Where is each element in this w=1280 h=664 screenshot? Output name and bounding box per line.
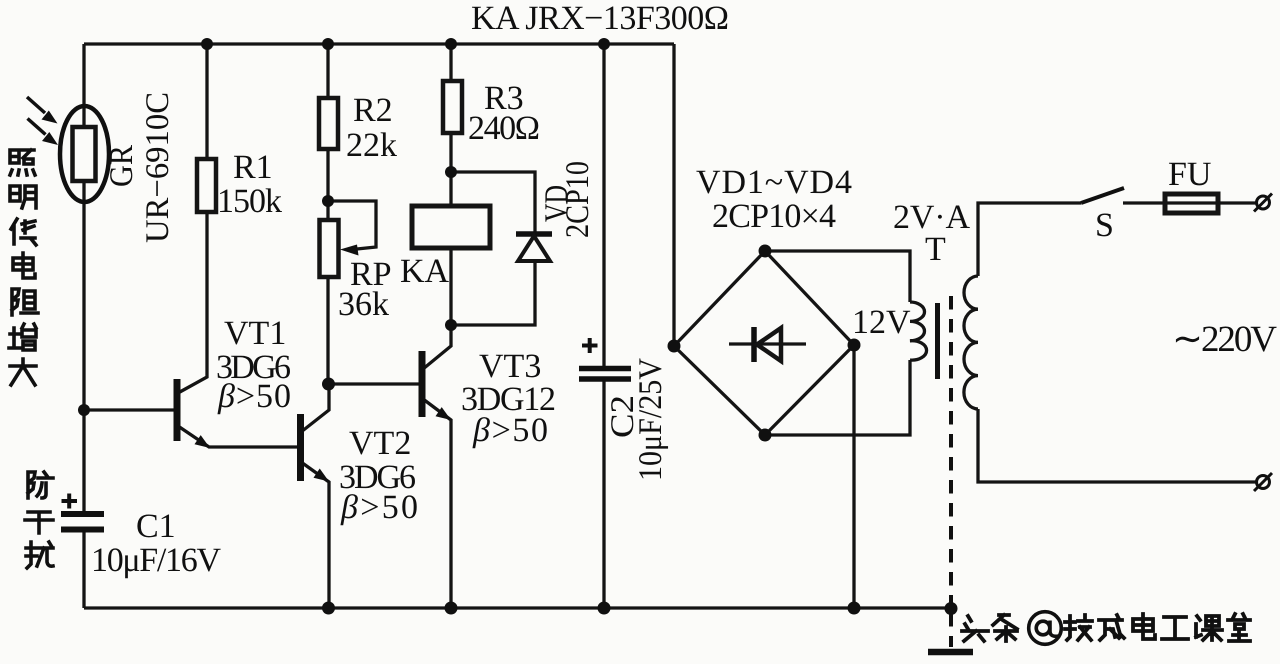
svg-text:∼220V: ∼220V	[1172, 319, 1277, 360]
svg-text:240Ω: 240Ω	[468, 110, 540, 147]
node dot top bus R2	[322, 38, 334, 50]
wire node B to VT3 base	[328, 382, 420, 385]
bridge rectifier inner diode triangle	[757, 328, 781, 361]
svg-text:VT1: VT1	[224, 315, 286, 352]
svg-text:VT2: VT2	[349, 425, 411, 462]
svg-text:22k: 22k	[346, 127, 397, 164]
capacitor C2 polarity plus	[582, 338, 598, 353]
node dot VT2 emitter bottom bus	[322, 602, 335, 615]
photoresistor GR ellipse	[60, 106, 109, 202]
node dot VT2 collector VT3 base	[322, 378, 335, 391]
wire RP wiper	[328, 201, 376, 250]
wire R3 lower	[449, 132, 452, 172]
diode VD triangle	[518, 236, 550, 261]
capacitor C1 polarity plus	[62, 494, 78, 509]
wire R3 branch upper	[449, 44, 452, 82]
wire C2 branch lower	[602, 381, 605, 608]
node dot bridge drop bottom bus	[848, 602, 861, 615]
node dot top bus C2	[598, 38, 610, 50]
light arrow 2	[28, 119, 59, 146]
wire bridge edge top-left	[674, 251, 765, 346]
node dot bridge right vertex	[848, 339, 861, 352]
watermark halo	[962, 614, 1250, 641]
bridge rectifier inner diode cathode bar	[751, 327, 757, 362]
watermark at symbol	[1029, 612, 1062, 645]
svg-text:R2: R2	[353, 92, 393, 129]
wire primary bottom to terminal	[978, 409, 1256, 482]
svg-text:S: S	[1095, 207, 1114, 244]
capacitor C2 plates	[579, 369, 631, 380]
node dot C2 bottom bus	[598, 602, 611, 615]
wire bridge edge top-right	[765, 251, 854, 345]
svg-text:FU: FU	[1168, 156, 1211, 193]
wire VT3 collector	[423, 325, 451, 369]
svg-text:KA JRX−13F300Ω: KA JRX−13F300Ω	[471, 0, 729, 37]
node dot GR VT1 base	[78, 404, 90, 416]
wire VD branch bottom	[451, 260, 535, 325]
wire bridge edge bottom-left	[674, 346, 765, 435]
wire VT1 emitter to VT2 base	[178, 426, 300, 447]
svg-text:36k: 36k	[338, 286, 389, 323]
resistor R1	[197, 159, 216, 212]
transistor VT1 emitter arrow	[195, 435, 211, 448]
node dot ground	[945, 602, 958, 615]
wire VT2 collector	[301, 384, 329, 432]
resistor R3	[443, 81, 462, 133]
bridge rectifier inner diode line	[729, 342, 806, 345]
svg-text:R1: R1	[233, 149, 273, 186]
svg-text:150k: 150k	[217, 183, 282, 220]
wire primary top corner	[978, 203, 1081, 276]
light arrow 1	[27, 97, 58, 124]
svg-text:2CP10: 2CP10	[560, 161, 596, 238]
node dot R2 RP wiper	[322, 195, 334, 207]
wire RP bottom to node B	[326, 276, 329, 384]
svg-text:VD1~VD4: VD1~VD4	[696, 164, 852, 201]
svg-text:2CP10×4: 2CP10×4	[712, 198, 836, 235]
wire bridge top vertex to secondary	[765, 251, 910, 302]
fuse FU body	[1165, 194, 1218, 213]
wire R2 branch upper	[326, 44, 329, 99]
transistor VT3 emitter arrow	[436, 407, 452, 420]
transistor VT2 emitter arrow	[314, 469, 330, 482]
terminal bottom right	[1254, 473, 1272, 491]
svg-text:UR−6910C: UR−6910C	[140, 92, 176, 243]
wire left rail upper	[82, 44, 85, 513]
wire bridge edge bottom-right	[765, 345, 854, 435]
capacitor C1 plates	[61, 514, 104, 530]
wire top bus	[84, 42, 674, 45]
switch S blade	[1081, 188, 1124, 203]
wire bridge right vertex to bottom bus	[852, 345, 855, 608]
wire bridge feed from top bus	[672, 44, 675, 346]
wire VT1 base	[84, 408, 176, 411]
svg-text:T: T	[925, 231, 946, 268]
relay coil KA	[412, 206, 490, 248]
ground bar	[928, 649, 973, 656]
svg-text:β>50: β>50	[217, 378, 291, 415]
node dot R3 KA VD	[445, 166, 457, 178]
node dot bridge top vertex	[759, 245, 772, 258]
wire VT3 emitter	[423, 399, 451, 608]
wire VD branch top	[451, 172, 535, 235]
node dot bridge bottom vertex	[759, 429, 772, 442]
transformer secondary winding	[910, 302, 927, 360]
wire C2 branch upper	[602, 44, 605, 366]
wire R2 to RP	[326, 148, 329, 221]
svg-text:10μF/16V: 10μF/16V	[91, 542, 221, 579]
svg-text:β>50: β>50	[340, 489, 418, 526]
label vertical chinese fang-gan-rao	[25, 472, 53, 568]
svg-text:C1: C1	[136, 508, 176, 545]
transformer core bar	[935, 303, 940, 379]
wire VT2 emitter	[301, 462, 329, 608]
wire R1 branch lower to VT1 collector	[178, 211, 207, 393]
watermark at symbol halo	[1029, 612, 1062, 645]
photoresistor GR body	[73, 127, 96, 181]
transistor VT3 base bar	[419, 351, 426, 417]
node dot top bus R3	[445, 38, 457, 50]
svg-text:β>50: β>50	[472, 412, 548, 449]
terminal top right	[1254, 194, 1272, 212]
transformer primary winding	[964, 276, 978, 409]
node dot bridge left vertex	[668, 340, 681, 353]
transistor VT1 base bar	[174, 379, 181, 441]
wire KA branch lower	[449, 247, 452, 325]
potentiometer RP wiper arrow	[340, 245, 359, 256]
wire left rail lower	[82, 528, 85, 608]
wire KA branch upper	[449, 172, 452, 207]
potentiometer RP body	[320, 220, 339, 277]
transistor VT2 base bar	[297, 414, 304, 481]
node dot KA VD bottom	[445, 319, 457, 331]
svg-text:12V: 12V	[852, 304, 911, 341]
resistor R2	[319, 98, 338, 149]
svg-text:GR: GR	[104, 145, 140, 187]
wire secondary bottom to bridge bottom vertex	[765, 360, 910, 435]
svg-text:VT3: VT3	[479, 348, 541, 385]
node dot VT3 emitter bottom bus	[445, 602, 458, 615]
diode VD cathode bar	[516, 231, 552, 237]
ground stub dashed	[949, 613, 953, 647]
svg-text:10μF/25V: 10μF/25V	[633, 358, 669, 481]
watermark chinese tou-tiao ji-cheng-dian-gong-ke-tang	[962, 614, 1250, 641]
svg-text:KA: KA	[400, 253, 450, 290]
wire switch to fuse to terminal	[1123, 201, 1256, 204]
transformer shield dashed line	[949, 296, 953, 604]
node dot top bus R1	[201, 38, 213, 50]
wire bottom bus	[84, 606, 951, 609]
label vertical chinese zhao-ming-di-dian-zu-zeng-da	[9, 150, 38, 385]
wire R1 branch upper	[205, 44, 208, 160]
